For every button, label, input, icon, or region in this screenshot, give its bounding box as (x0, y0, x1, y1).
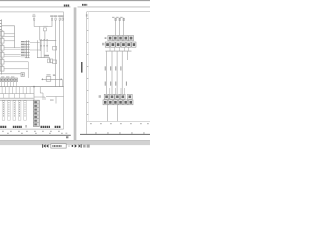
wire (4, 55, 21, 57)
nav last-page button (79, 144, 82, 147)
branch wire 2 (111, 51, 113, 94)
nav first-page button (42, 144, 45, 147)
distribution bus (105, 50, 131, 52)
wire (30, 49, 41, 51)
sheet right inner bottom border (87, 120, 150, 122)
header rule right panel (78, 6, 151, 8)
connector block X20 (33, 100, 39, 126)
wire (4, 47, 21, 49)
fuse box left label (102, 43, 104, 46)
sheet CD8 inner bottom border (0, 128, 64, 130)
bus link wires (4, 94, 26, 99)
wire (4, 68, 28, 70)
wire (33, 87, 35, 100)
sheet right left border (86, 12, 88, 135)
wire (34, 20, 52, 26)
pair split wires (110, 88, 125, 94)
wire (34, 97, 45, 100)
connector strip X1 labels (21, 41, 25, 56)
main bus (0, 86, 64, 88)
wire (2, 35, 15, 37)
wire (4, 33, 15, 35)
sheet tab label 1/28 (right panel) (82, 4, 87, 6)
feed wire 1 (112, 17, 116, 36)
wire (2, 26, 15, 48)
sheet CD8 right border (63, 12, 65, 129)
window top edge (0, 0, 150, 2)
wire (37, 40, 49, 62)
sheet tab label CD8 (left panel) (64, 5, 69, 7)
fuse F31 symbol (42, 74, 63, 86)
wire destination label W5 (24, 101, 27, 121)
panel separator soft edge (72, 7, 75, 140)
sheet CD8 top border (0, 11, 64, 13)
small box (21, 73, 24, 77)
wire (27, 62, 29, 78)
wire (4, 54, 21, 56)
wire (40, 87, 43, 100)
grid tick specks above ruler (95, 133, 145, 134)
nav next button (75, 144, 77, 147)
inline connector S2 (53, 60, 57, 64)
bottom label 3DMsl (13, 126, 22, 128)
lower row left label (99, 95, 101, 98)
inner frame line right sheet (87, 12, 89, 122)
scrollbar band (0, 140, 150, 145)
secondary bus (0, 93, 34, 95)
terminal strip row (0, 76, 18, 81)
wire (39, 40, 41, 51)
sheet CD8 outer bottom ruler (0, 134, 71, 136)
relay K4 box (0, 51, 4, 57)
strip drop wires (2, 82, 17, 87)
wire (46, 96, 64, 98)
pin nubs on left bus (0, 20, 1, 30)
lower separate box (127, 94, 132, 99)
separator dot (72, 145, 73, 147)
drop wires below fuse rows (110, 47, 129, 51)
grid tick row right sheet (90, 123, 149, 124)
bottom label TWO (0, 126, 7, 128)
feed wire 2 (116, 17, 120, 36)
bottom tick (25, 125, 28, 128)
bus drop wires (2, 87, 30, 94)
wire (4, 61, 28, 63)
wire destination label W2 (8, 101, 11, 121)
wire (0, 73, 21, 75)
panel separator (74, 7, 76, 140)
border tick nubs right sheet (87, 18, 89, 115)
extra tool button 1 (83, 145, 86, 148)
sheet right outer bottom ruler (80, 133, 150, 135)
harness connector flag A (50, 15, 53, 20)
harness connector flag B (54, 15, 57, 20)
connector strip X1 halo (21, 41, 26, 58)
branch wire 1 (106, 51, 108, 94)
branch wire 5 (126, 51, 128, 60)
relay K1 box (0, 30, 4, 36)
wire (4, 48, 21, 50)
small tick (69, 145, 70, 147)
border tick box (86, 14, 88, 16)
bottom label WDBT (41, 126, 51, 128)
wire (59, 20, 61, 86)
wire destination label W4 (18, 101, 21, 121)
page number field (51, 144, 66, 148)
scrollbar band top edge (0, 140, 150, 142)
feed wire 3 (120, 17, 124, 36)
wire destination label W1 (2, 101, 5, 121)
branch wire 4 (121, 51, 123, 94)
relay K3 box (0, 44, 4, 50)
outlet wire 2 (117, 105, 119, 122)
component bus strip left edge (1, 19, 3, 74)
tick specks above left ruler (7, 133, 63, 134)
fuse cell row 1 (108, 36, 134, 41)
harness connector flag E (32, 14, 35, 20)
wire (40, 27, 56, 41)
wire (30, 42, 40, 44)
grid number row left sheet (2, 131, 67, 134)
sheet right top border (87, 11, 150, 13)
outlet wire 1 (107, 105, 109, 122)
wire (55, 97, 57, 104)
header rule left panel (0, 6, 71, 8)
harness connector flag C (58, 15, 61, 20)
contact block (48, 59, 53, 63)
wire code labels row 1 (105, 66, 122, 70)
page number text (52, 145, 61, 147)
corner mark (66, 136, 68, 138)
wire (44, 31, 46, 40)
lower cell row A (104, 94, 125, 99)
relay K5 box (0, 58, 4, 64)
relay K2 box (0, 37, 4, 43)
harness connector flag D (61, 15, 64, 20)
lower cell row B (103, 100, 133, 105)
fuse cell row 2 (105, 42, 136, 47)
fuse F1 (43, 26, 48, 31)
label speck (53, 75, 55, 76)
relay K6 box (0, 65, 4, 71)
branch wire 3 (116, 51, 118, 94)
connector strip X1 pins (25, 40, 30, 58)
extra tool button 2 (87, 144, 90, 147)
label speck (50, 100, 54, 101)
wire (33, 20, 35, 26)
label J4 (44, 55, 49, 57)
junction dot (33, 86, 34, 87)
wire (55, 20, 57, 86)
bottom label UHD (55, 126, 61, 128)
row 1 left label (105, 37, 107, 39)
nav prev button (46, 144, 48, 147)
wire (4, 40, 15, 42)
margin vertical sheet label (81, 62, 83, 73)
wire code labels row 2 (105, 82, 127, 86)
branch dot wires (40, 39, 48, 57)
lower double bus (0, 97, 34, 99)
inline connector S3 speck (53, 74, 55, 75)
inline connector S1 (53, 46, 57, 50)
wire destination label W3 (13, 101, 16, 121)
